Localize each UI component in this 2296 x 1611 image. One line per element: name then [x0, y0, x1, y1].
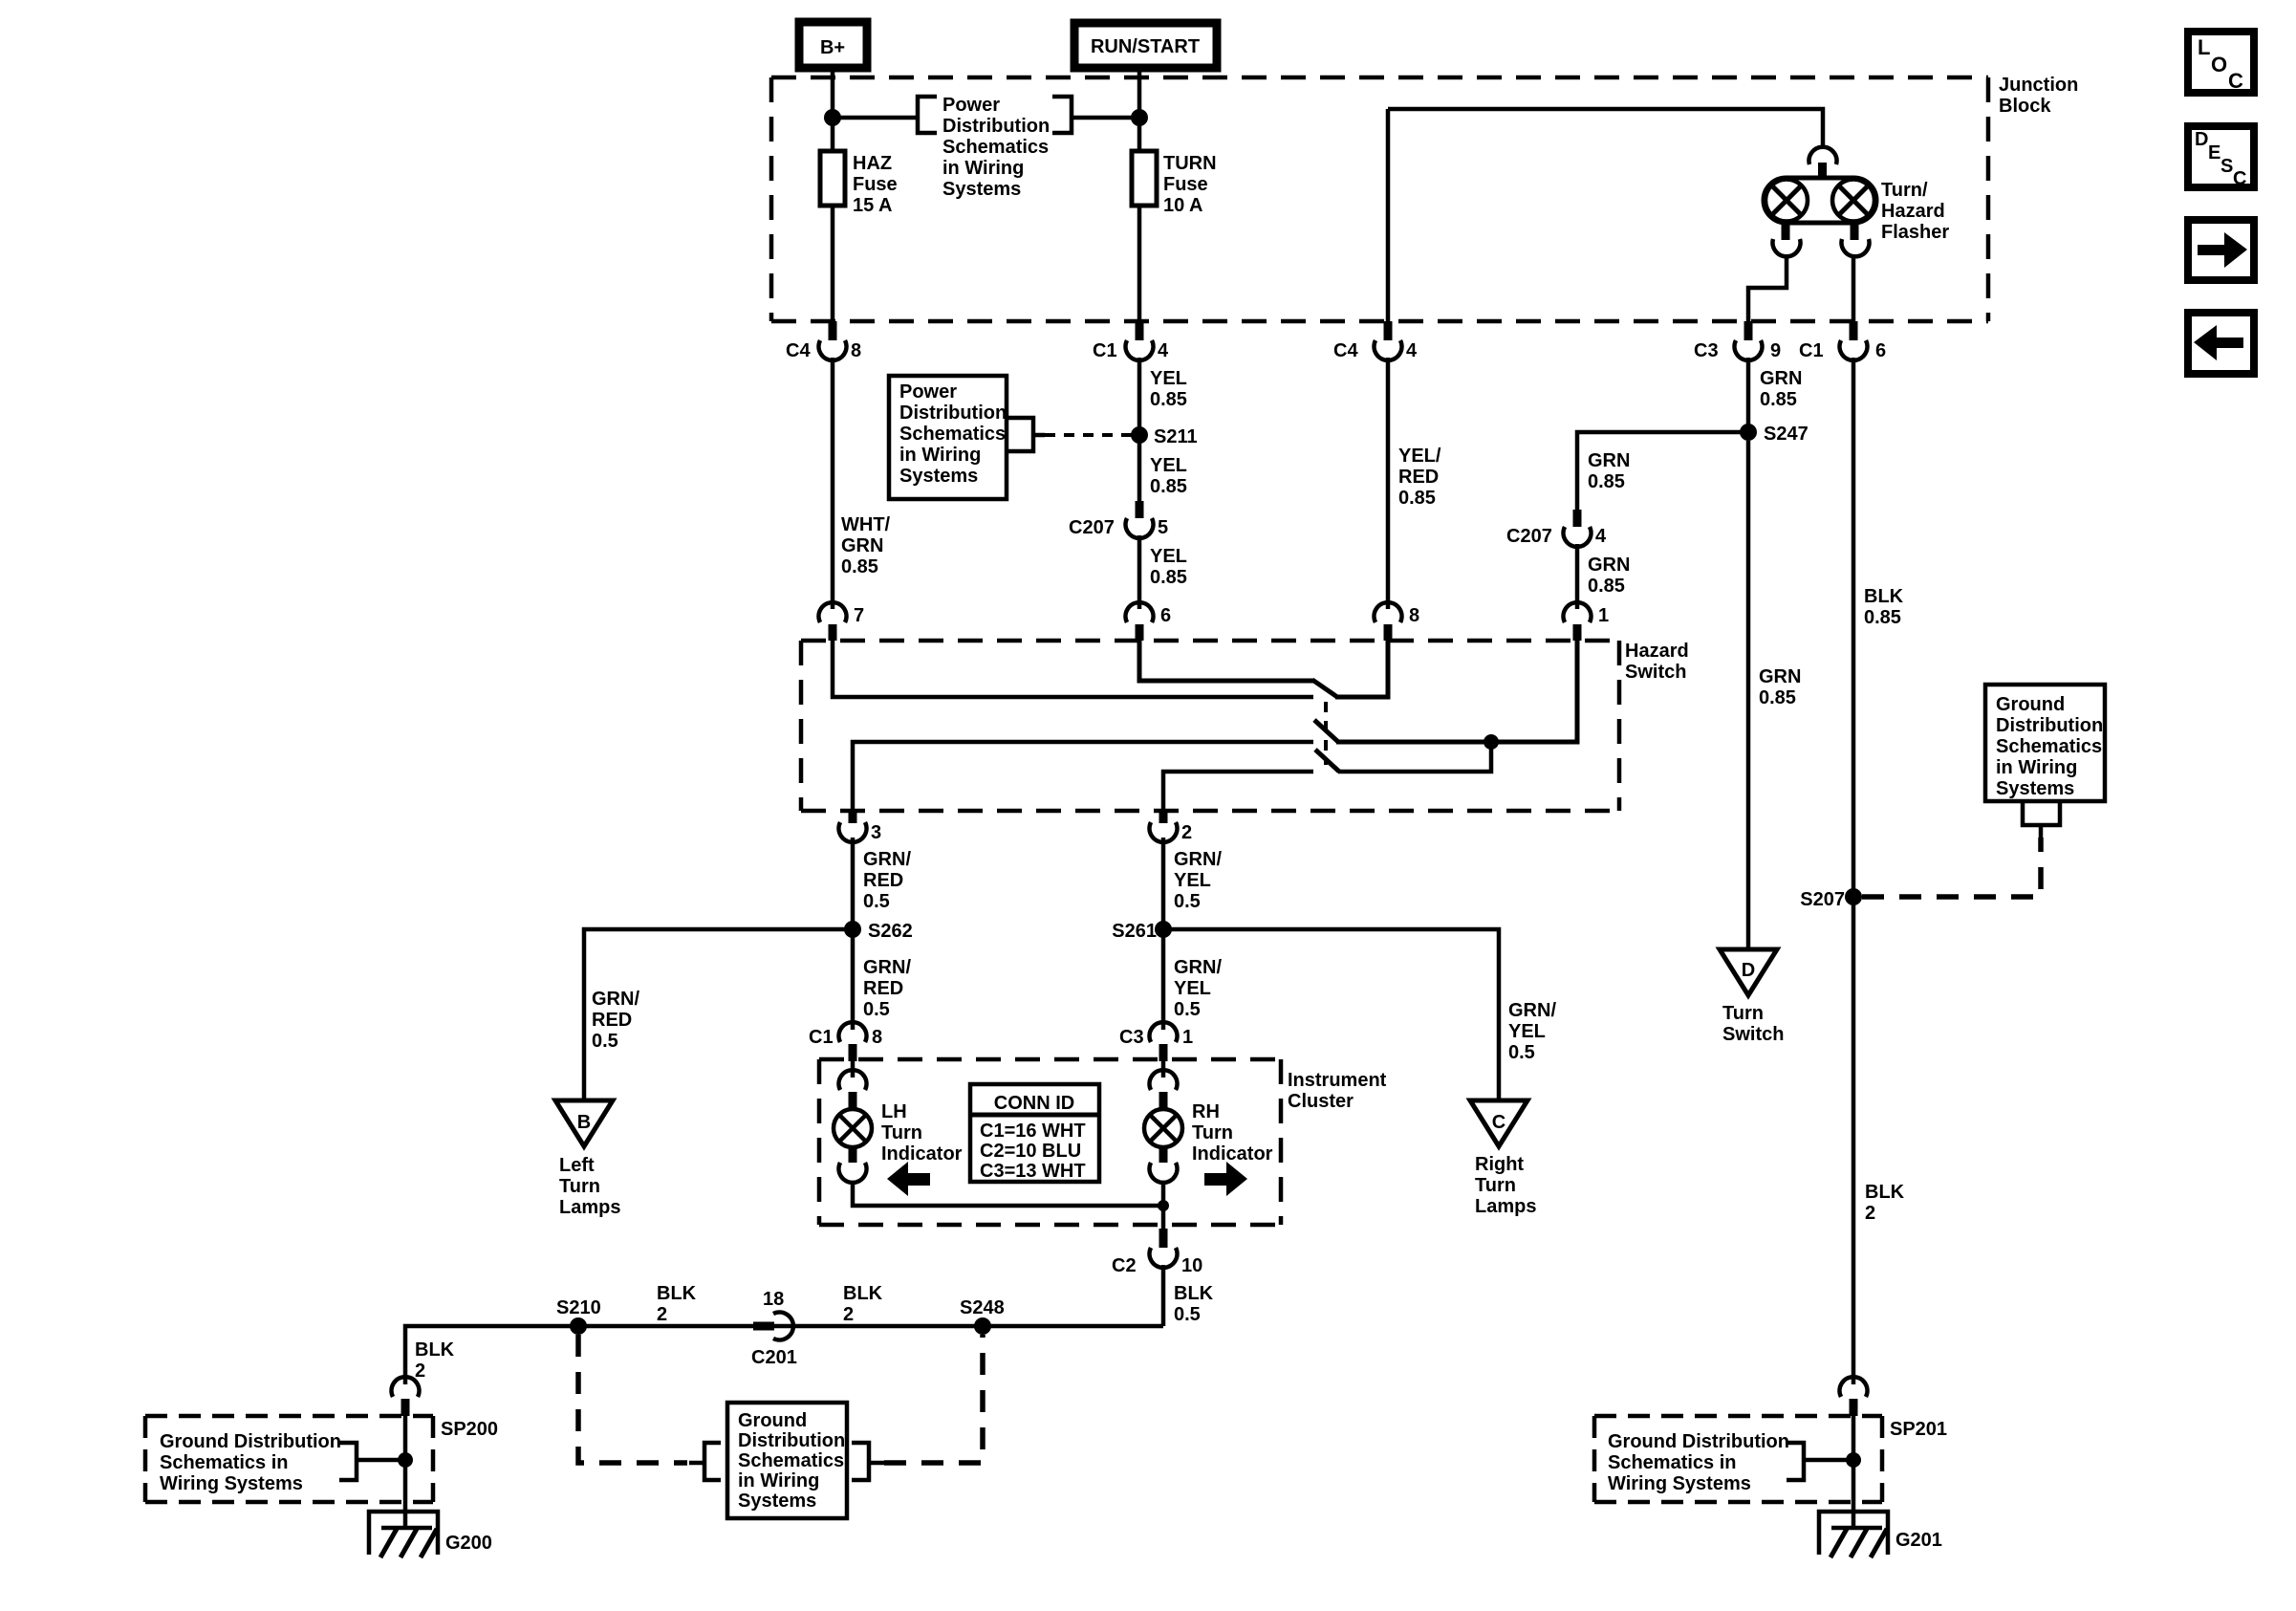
switch blade to pin 2 contact (open) [1315, 750, 1339, 772]
left turn lamps label [559, 1155, 620, 1218]
wire C4-4 to hazard switch pin 8 [1386, 358, 1391, 609]
internal branch node to lower blade [1338, 742, 1491, 772]
wire S247 to turn switch [1746, 441, 1751, 949]
label BLK 2 [843, 1283, 883, 1325]
hazard switch dashed box [801, 641, 1619, 811]
svg-text:Wiring Systems: Wiring Systems [1608, 1473, 1751, 1494]
internal wire blade to pin 8 [1335, 641, 1388, 697]
svg-text:SP200: SP200 [441, 1419, 498, 1440]
dashed lead bracket to S211 [1033, 433, 1045, 438]
svg-text:Schematics: Schematics [1996, 736, 2102, 757]
hazard switch label [1625, 641, 1689, 683]
svg-text:Switch: Switch [1625, 662, 1686, 683]
label YEL 0.85 [1150, 546, 1187, 588]
svg-text:Power: Power [942, 95, 1000, 116]
svg-text:8: 8 [872, 1027, 882, 1048]
svg-text:Switch: Switch [1722, 1024, 1784, 1045]
wire through SP200 [403, 1416, 408, 1528]
svg-text:S210: S210 [556, 1297, 601, 1318]
svg-text:YEL: YEL [1174, 978, 1211, 999]
svg-text:8: 8 [851, 340, 861, 361]
svg-text:Ground Distribution: Ground Distribution [160, 1431, 341, 1452]
label GRN/YEL 0.5 [1174, 957, 1222, 1020]
svg-text:in Wiring: in Wiring [738, 1470, 819, 1491]
dashed lead S207 to ground note [1862, 838, 2041, 897]
ground bus wire [405, 1326, 1163, 1384]
wire RH lamp down [1161, 1181, 1166, 1229]
hazard switch internal wire from pin 2 [1163, 772, 1313, 811]
bracket right of S211 box [1007, 418, 1033, 451]
power distribution schematics box (S211) [889, 376, 1007, 499]
svg-text:YEL: YEL [1174, 870, 1211, 891]
svg-text:YEL: YEL [1150, 368, 1187, 389]
svg-text:2: 2 [657, 1304, 667, 1325]
svg-text:4: 4 [1158, 340, 1169, 361]
bracket right of center note box [852, 1443, 884, 1480]
svg-text:2: 2 [1865, 1203, 1875, 1224]
svg-text:C1: C1 [1799, 340, 1824, 361]
bracket in SP201 [1787, 1443, 1804, 1480]
wire S261 to C3-1 [1161, 929, 1166, 1030]
svg-text:S262: S262 [868, 921, 913, 942]
ground G201 [1819, 1512, 1942, 1557]
label GRN/RED 0.5 [863, 957, 911, 1020]
wire C4-8 to hazard switch pin 7 [831, 358, 835, 609]
hazard switch pin 2 [1150, 811, 1193, 843]
svg-text:Indicator: Indicator [881, 1143, 963, 1165]
svg-text:BLK: BLK [1865, 1182, 1905, 1203]
wire bracket to RUN/START wire [1072, 116, 1139, 120]
svg-text:18: 18 [763, 1289, 784, 1310]
ground distribution note box (center) [727, 1403, 847, 1518]
LOC icon [2188, 32, 2254, 93]
connector SP201 top [1839, 1377, 1867, 1416]
hazard switch internal wire from pin 7 [833, 641, 1313, 697]
svg-text:5: 5 [1158, 517, 1168, 538]
wire B+ to HAZ fuse [831, 68, 835, 151]
svg-text:YEL: YEL [1150, 546, 1187, 567]
connector C207-5 [1069, 501, 1168, 538]
svg-text:0.85: 0.85 [1150, 567, 1187, 588]
node at RUN/START wire [1131, 109, 1148, 126]
svg-text:6: 6 [1160, 605, 1171, 626]
svg-text:YEL: YEL [1508, 1021, 1546, 1042]
svg-text:0.85: 0.85 [1759, 687, 1796, 708]
terminal B+ [799, 22, 867, 68]
connector C1-8 [809, 1022, 882, 1061]
connector C1-4 [1093, 321, 1169, 361]
hazard switch pin 1 [1564, 602, 1610, 641]
label GRN 0.85 [1588, 555, 1630, 597]
svg-text:Wiring Systems: Wiring Systems [160, 1473, 303, 1494]
connector C207-4 [1506, 510, 1607, 547]
turn/hazard flasher [1764, 147, 1876, 257]
svg-text:Distribution: Distribution [942, 116, 1050, 137]
ground G200 [369, 1512, 492, 1557]
svg-text:Fuse: Fuse [1163, 174, 1208, 195]
svg-text:RUN/START: RUN/START [1091, 36, 1200, 57]
dashed lead S210 to ground note [578, 1335, 687, 1463]
svg-text:C3=13 WHT: C3=13 WHT [980, 1161, 1086, 1182]
svg-text:C4: C4 [786, 340, 811, 361]
node in hazard switch [1484, 734, 1499, 750]
svg-text:BLK: BLK [1174, 1283, 1214, 1304]
svg-text:C207: C207 [1069, 517, 1115, 538]
power distribution note (top) [942, 95, 1050, 200]
svg-text:O: O [2211, 53, 2227, 76]
svg-text:15 A: 15 A [853, 195, 893, 216]
label GRN 0.85 [1759, 666, 1801, 708]
svg-text:S207: S207 [1800, 889, 1845, 910]
svg-text:RED: RED [863, 870, 903, 891]
switch blade 6-8 (closed) [1312, 680, 1337, 697]
label BLK 2 (left) [415, 1339, 455, 1382]
wire S262 to left turn lamps [584, 929, 853, 949]
turn switch label [1722, 1003, 1784, 1045]
svg-text:C2=10 BLU: C2=10 BLU [980, 1141, 1081, 1162]
svg-text:Block: Block [1999, 96, 2051, 117]
hazard switch pin 3 [838, 811, 881, 843]
svg-text:BLK: BLK [415, 1339, 455, 1361]
wire C207-5 to hazard switch pin 6 [1137, 535, 1142, 609]
hazard switch internal wire from pin 6 [1139, 641, 1314, 681]
ground distribution note in SP200 [160, 1431, 341, 1494]
svg-text:CONN ID: CONN ID [994, 1093, 1074, 1114]
wire LH lamp to ground bus [853, 1181, 1163, 1206]
label BLK 0.85 [1864, 586, 1904, 628]
svg-text:0.5: 0.5 [592, 1031, 618, 1052]
wire TURN fuse to connector C1-4 [1137, 206, 1142, 323]
svg-text:4: 4 [1406, 340, 1418, 361]
svg-text:Schematics: Schematics [942, 137, 1049, 158]
svg-text:C: C [2228, 69, 2243, 93]
svg-text:WHT/: WHT/ [841, 514, 891, 535]
svg-text:Systems: Systems [738, 1491, 816, 1512]
svg-text:0.85: 0.85 [1864, 607, 1901, 628]
label GRN/YEL 0.5 [1508, 1000, 1556, 1063]
label YEL/RED 0.85 [1398, 446, 1441, 509]
svg-text:0.5: 0.5 [863, 891, 890, 912]
svg-text:Power: Power [899, 381, 957, 403]
svg-text:Schematics: Schematics [738, 1450, 844, 1471]
svg-text:L: L [2198, 35, 2210, 59]
svg-text:GRN: GRN [841, 535, 883, 556]
wire feed down to C4-4 [1386, 109, 1391, 323]
node lamp ground [1158, 1200, 1169, 1211]
svg-text:Ground Distribution: Ground Distribution [1608, 1431, 1789, 1452]
terminal RUN/START [1074, 23, 1217, 68]
svg-text:1: 1 [1598, 605, 1609, 626]
svg-text:D: D [1742, 960, 1755, 981]
DESC icon [2188, 126, 2254, 189]
svg-text:C1: C1 [1093, 340, 1117, 361]
svg-text:2: 2 [1181, 822, 1192, 843]
right turn lamps label [1475, 1154, 1536, 1217]
svg-text:RED: RED [1398, 467, 1439, 488]
fuse TURN 10A [1132, 151, 1217, 216]
svg-text:0.5: 0.5 [1174, 891, 1201, 912]
svg-text:BLK: BLK [657, 1283, 697, 1304]
svg-text:BLK: BLK [843, 1283, 883, 1304]
ground distribution note box (right) [1985, 685, 2105, 801]
node at B+ wire [824, 109, 841, 126]
svg-text:C: C [2233, 168, 2246, 189]
svg-text:C: C [1492, 1112, 1505, 1133]
svg-text:S211: S211 [1154, 426, 1198, 447]
svg-text:C1=16 WHT: C1=16 WHT [980, 1121, 1086, 1142]
LH turn indicator lamp [834, 1061, 872, 1183]
instrument cluster dashed box [819, 1059, 1281, 1225]
node SP201 [1846, 1452, 1861, 1468]
connector SP200 top [391, 1377, 419, 1416]
wire C2-10 to ground bus [1161, 1265, 1166, 1326]
splice pack SP200 dashed box [145, 1416, 498, 1502]
svg-text:10 A: 10 A [1163, 195, 1203, 216]
instrument cluster label [1288, 1070, 1387, 1112]
svg-text:Turn: Turn [1722, 1003, 1764, 1024]
wire pin 3 to S262 [851, 838, 856, 929]
svg-text:C1: C1 [809, 1027, 834, 1048]
bracket left of power distribution note [918, 97, 937, 133]
bracket in SP200 [339, 1443, 357, 1480]
svg-text:S247: S247 [1764, 424, 1809, 445]
svg-text:Lamps: Lamps [559, 1197, 620, 1218]
bracket left of center note box [689, 1443, 721, 1480]
hazard switch pin 6 [1125, 602, 1171, 641]
wire S247 to C207-4 [1577, 432, 1748, 510]
svg-text:10: 10 [1181, 1255, 1202, 1276]
wire C1-6 to S207 (BLK 0.85) [1852, 358, 1856, 897]
label GRN/RED 0.5 [592, 989, 639, 1052]
svg-text:GRN/: GRN/ [592, 989, 639, 1010]
node SP200 [398, 1452, 413, 1468]
svg-text:Left: Left [559, 1155, 595, 1176]
RH turn indicator lamp [1144, 1061, 1182, 1183]
svg-text:B: B [577, 1112, 591, 1133]
label GRN 0.85 [1588, 450, 1630, 492]
svg-text:0.5: 0.5 [1174, 1304, 1201, 1325]
svg-text:GRN: GRN [1759, 666, 1801, 687]
svg-text:C3: C3 [1119, 1027, 1144, 1048]
wire pin 2 to S261 [1161, 838, 1166, 929]
splice S262 [844, 921, 913, 942]
connector C2-10 [1112, 1229, 1202, 1276]
connector C201 [751, 1289, 797, 1368]
svg-text:C4: C4 [1333, 340, 1358, 361]
wire node to left bracket [833, 116, 918, 120]
wire S262 to C1-8 [851, 929, 856, 1030]
label BLK 2 (right) [1865, 1182, 1905, 1224]
svg-text:Turn: Turn [881, 1122, 922, 1143]
svg-text:4: 4 [1595, 526, 1607, 547]
splice S248 [960, 1297, 1005, 1335]
label YEL 0.85 [1150, 368, 1187, 410]
right turn lamps triangle C [1470, 1100, 1527, 1146]
svg-text:G201: G201 [1895, 1530, 1942, 1551]
splice S247 [1740, 424, 1809, 445]
svg-text:3: 3 [871, 822, 881, 843]
svg-text:Instrument: Instrument [1288, 1070, 1387, 1091]
svg-text:Hazard: Hazard [1625, 641, 1689, 662]
svg-text:2: 2 [843, 1304, 854, 1325]
svg-text:0.85: 0.85 [1398, 488, 1436, 509]
splice S210 [556, 1297, 601, 1335]
svg-text:Systems: Systems [1996, 778, 2074, 799]
svg-text:Schematics: Schematics [899, 424, 1006, 445]
svg-text:BLK: BLK [1864, 586, 1904, 607]
svg-text:0.85: 0.85 [841, 556, 878, 577]
forward arrow icon [2188, 220, 2254, 280]
label WHT/GRN 0.85 [841, 514, 891, 577]
junction block label [1999, 75, 2078, 117]
svg-text:SP201: SP201 [1890, 1419, 1947, 1440]
svg-text:in Wiring: in Wiring [1996, 757, 2077, 778]
wire S211 to C207-5 [1137, 435, 1142, 501]
CONN ID table [970, 1084, 1099, 1182]
svg-text:S248: S248 [960, 1297, 1005, 1318]
svg-text:1: 1 [1182, 1027, 1193, 1048]
label GRN/RED 0.5 [863, 849, 911, 912]
back arrow icon [2188, 313, 2254, 374]
svg-text:GRN/: GRN/ [1174, 957, 1222, 978]
svg-text:S261: S261 [1112, 921, 1157, 942]
svg-text:GRN: GRN [1588, 555, 1630, 576]
svg-text:2: 2 [415, 1361, 425, 1382]
svg-text:6: 6 [1875, 340, 1886, 361]
svg-text:0.5: 0.5 [1508, 1042, 1535, 1063]
svg-text:LH: LH [881, 1101, 907, 1122]
svg-text:RH: RH [1192, 1101, 1220, 1122]
label BLK 0.5 [1174, 1283, 1214, 1325]
RH turn indicator label [1192, 1101, 1273, 1165]
left turn lamps triangle B [555, 1100, 613, 1146]
svg-text:GRN: GRN [1760, 368, 1802, 389]
svg-text:GRN/: GRN/ [1174, 849, 1222, 870]
junction block dashed box [771, 77, 1988, 321]
wire C3-9 to S247 [1746, 358, 1751, 432]
svg-text:0.5: 0.5 [863, 999, 890, 1020]
svg-text:9: 9 [1770, 340, 1781, 361]
svg-text:0.85: 0.85 [1760, 389, 1797, 410]
svg-text:0.85: 0.85 [1588, 471, 1625, 492]
label YEL 0.85 [1150, 455, 1187, 497]
svg-text:GRN/: GRN/ [863, 957, 911, 978]
switch linkage (dashed) [1324, 702, 1328, 765]
svg-text:Indicator: Indicator [1192, 1143, 1273, 1165]
flasher label [1881, 180, 1949, 243]
svg-text:C2: C2 [1112, 1255, 1137, 1276]
svg-text:Cluster: Cluster [1288, 1091, 1354, 1112]
svg-text:C201: C201 [751, 1347, 797, 1368]
svg-text:0.85: 0.85 [1150, 389, 1187, 410]
left arrow icon [887, 1162, 930, 1196]
svg-text:RED: RED [863, 978, 903, 999]
wire S207 to SP201 (BLK 2) [1852, 897, 1856, 1384]
wire C1-4 to S211 [1137, 358, 1142, 435]
svg-text:C207: C207 [1506, 526, 1552, 547]
svg-text:0.5: 0.5 [1174, 999, 1201, 1020]
label GRN/YEL 0.5 [1174, 849, 1222, 912]
svg-text:GRN/: GRN/ [863, 849, 911, 870]
svg-text:Turn: Turn [559, 1176, 600, 1197]
svg-text:Turn: Turn [1192, 1122, 1233, 1143]
internal wire pin 1 to blades [1336, 641, 1577, 742]
svg-text:Distribution: Distribution [1996, 715, 2103, 736]
svg-text:YEL/: YEL/ [1398, 446, 1441, 467]
fuse HAZ 15A [820, 151, 898, 216]
svg-text:Schematics in: Schematics in [1608, 1452, 1737, 1473]
bracket below right note box [2023, 801, 2060, 838]
svg-text:in Wiring: in Wiring [899, 445, 981, 466]
svg-text:E: E [2208, 142, 2220, 163]
wire S261 to right turn lamps [1163, 929, 1499, 1100]
svg-text:Flasher: Flasher [1881, 222, 1949, 243]
splice S211 [1131, 426, 1198, 447]
splice pack SP201 dashed box [1594, 1416, 1947, 1502]
hazard switch pin 8 [1375, 602, 1420, 641]
hazard switch pin 7 [819, 602, 865, 641]
splice S207 [1800, 888, 1862, 910]
dashed lead S248 to ground note [884, 1335, 983, 1463]
wire RUN/START to TURN fuse [1137, 68, 1142, 151]
LH turn indicator label [881, 1101, 963, 1165]
svg-text:0.85: 0.85 [1150, 476, 1187, 497]
wire flasher right pin to C1-6 [1852, 256, 1856, 323]
connector C3-9 [1694, 321, 1781, 361]
svg-text:0.85: 0.85 [1588, 576, 1625, 597]
svg-text:YEL: YEL [1150, 455, 1187, 476]
right arrow icon [1204, 1162, 1247, 1196]
svg-text:Systems: Systems [942, 179, 1021, 200]
svg-text:S: S [2220, 156, 2233, 177]
wire HAZ fuse to connector C4-8 [831, 206, 835, 323]
turn switch triangle D [1720, 949, 1777, 995]
svg-text:D: D [2195, 129, 2208, 150]
svg-text:TURN: TURN [1163, 153, 1217, 174]
svg-text:Right: Right [1475, 1154, 1524, 1175]
bracket right of power distribution note [1052, 97, 1072, 133]
connector C1-6 [1799, 321, 1886, 361]
svg-text:Schematics in: Schematics in [160, 1452, 289, 1473]
svg-text:G200: G200 [445, 1533, 492, 1554]
wire through SP201 [1852, 1416, 1856, 1528]
svg-text:B+: B+ [820, 37, 845, 58]
svg-text:Fuse: Fuse [853, 174, 898, 195]
svg-text:Hazard: Hazard [1881, 201, 1945, 222]
svg-text:7: 7 [854, 605, 864, 626]
svg-text:GRN/: GRN/ [1508, 1000, 1556, 1021]
svg-text:Ground: Ground [738, 1410, 807, 1431]
connector C4-8 [786, 321, 861, 361]
svg-text:C3: C3 [1694, 340, 1719, 361]
wire C207-4 to hazard switch pin 1 [1575, 544, 1580, 609]
splice S261 [1112, 921, 1172, 942]
svg-text:Lamps: Lamps [1475, 1196, 1536, 1217]
svg-text:HAZ: HAZ [853, 153, 892, 174]
wire flasher feed (junction block internal) [1388, 109, 1823, 146]
label BLK 2 [657, 1283, 697, 1325]
svg-text:RED: RED [592, 1010, 632, 1031]
connector C3-1 [1119, 1022, 1193, 1061]
connector C4-4 [1333, 321, 1418, 361]
svg-text:Distribution: Distribution [899, 403, 1007, 424]
svg-text:Junction: Junction [1999, 75, 2078, 96]
svg-text:Distribution: Distribution [738, 1430, 845, 1451]
ground distribution note in SP201 [1608, 1431, 1789, 1494]
label GRN 0.85 [1760, 368, 1802, 410]
svg-text:Systems: Systems [899, 466, 978, 487]
svg-text:GRN: GRN [1588, 450, 1630, 471]
